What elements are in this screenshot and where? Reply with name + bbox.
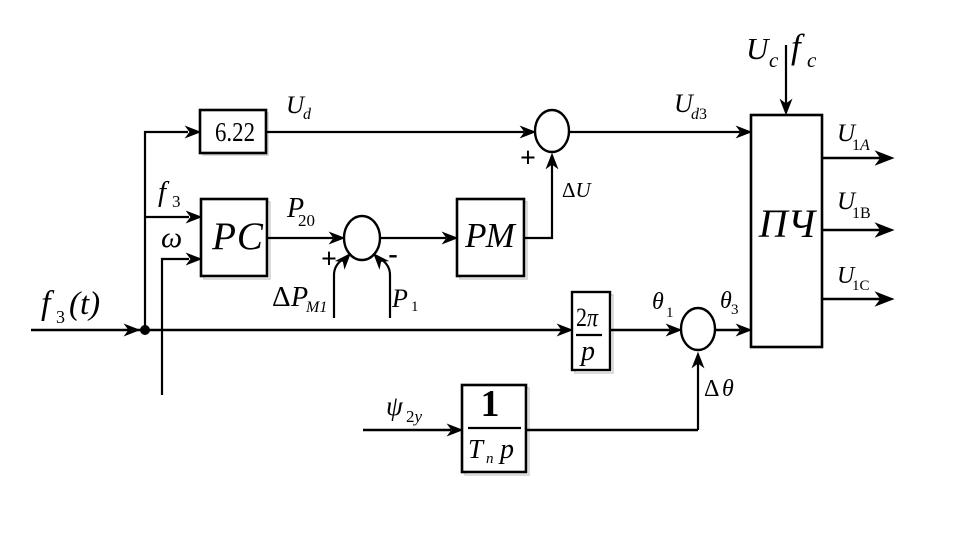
svg-text:РС: РС xyxy=(211,215,264,258)
wire: S1 output into PM xyxy=(380,233,457,244)
label f3 xyxy=(158,176,181,211)
svg-text:(t): (t) xyxy=(69,286,100,322)
wire: PM output up to S2 (delta U) xyxy=(524,154,557,238)
svg-text:6.22: 6.22 xyxy=(215,117,255,147)
arrowhead into node xyxy=(125,325,139,336)
label omega xyxy=(161,221,182,254)
wire: Uc fc arrow down into PCH xyxy=(781,45,792,114)
label theta3 xyxy=(720,288,739,318)
svg-text:f: f xyxy=(791,27,805,66)
label U1C xyxy=(837,263,870,294)
arrowhead into 2pi/p xyxy=(558,325,572,336)
wire: 1/Tnp output right and up (joins delta theta) xyxy=(526,429,698,431)
svg-text:U: U xyxy=(746,31,771,66)
wire: omega line vertical dangling xyxy=(161,258,163,395)
label P20 xyxy=(286,193,315,230)
svg-text:M1: M1 xyxy=(305,299,327,316)
wire: 6.22 output to sum2 xyxy=(266,127,535,138)
svg-text:3: 3 xyxy=(731,302,739,318)
summing junction S1 xyxy=(344,216,380,260)
wire: output U1C xyxy=(822,293,893,306)
label theta1 xyxy=(652,289,674,321)
svg-text:T: T xyxy=(468,434,485,464)
svg-text:1: 1 xyxy=(411,299,419,315)
svg-text:p: p xyxy=(498,434,514,465)
label plus S1 xyxy=(321,244,337,275)
wire: omega into PC block xyxy=(161,254,201,265)
wire: psi input into 1/Tnp xyxy=(363,425,462,436)
wire: branch into 6.22 block xyxy=(144,127,200,138)
block PC xyxy=(201,199,267,276)
wire: branch f3 into PC block xyxy=(144,212,201,223)
wire: output U1A xyxy=(822,152,893,165)
wire: 2pi/p output into S3 xyxy=(610,325,681,336)
label minus S1 xyxy=(388,239,397,270)
block 2pi/p xyxy=(572,292,610,370)
svg-text:2y: 2y xyxy=(406,407,423,426)
wire: vertical branch from node up xyxy=(144,131,146,330)
svg-text:3: 3 xyxy=(56,307,65,327)
label Uc xyxy=(746,31,779,72)
label P1 xyxy=(391,284,419,315)
svg-text:f: f xyxy=(158,176,170,208)
svg-text:-: - xyxy=(388,239,397,270)
svg-text:c: c xyxy=(769,48,779,72)
svg-text:P: P xyxy=(391,284,408,313)
summing junction S2 xyxy=(535,110,569,152)
label Ud3 xyxy=(674,89,707,123)
label psi2y xyxy=(386,391,423,426)
svg-text:Δ: Δ xyxy=(704,376,719,402)
block PM xyxy=(457,199,524,276)
svg-text:2π: 2π xyxy=(576,303,599,332)
label fc xyxy=(791,27,817,72)
block 1/Tnp xyxy=(462,383,526,472)
svg-text:ψ: ψ xyxy=(386,391,404,421)
block 6.22 shadow xyxy=(203,113,268,155)
svg-text:ΔU: ΔU xyxy=(562,178,593,202)
svg-text:p: p xyxy=(579,336,595,367)
svg-text:1C: 1C xyxy=(852,278,870,294)
svg-text:d3: d3 xyxy=(691,106,707,123)
block 2pi/p shadow xyxy=(575,295,613,373)
wire: P1 hook into S1 xyxy=(370,250,390,318)
wire: dPM1 hook into S1 xyxy=(334,250,354,318)
svg-text:+: + xyxy=(520,143,536,174)
svg-text:1B: 1B xyxy=(852,205,871,222)
svg-text:ПЧ: ПЧ xyxy=(758,201,818,246)
svg-text:ω: ω xyxy=(161,221,182,254)
svg-text:1: 1 xyxy=(666,305,674,321)
label dPM1 xyxy=(272,281,327,316)
wire: S2 output to PCH xyxy=(569,127,751,138)
svg-text:3: 3 xyxy=(172,192,181,211)
svg-text:n: n xyxy=(486,451,494,467)
block PCH xyxy=(751,115,822,347)
svg-text:θ: θ xyxy=(652,289,664,315)
node: junction dot xyxy=(140,325,150,335)
summing junction S3 xyxy=(681,308,715,350)
svg-text:1A: 1A xyxy=(852,137,870,154)
svg-text:θ: θ xyxy=(722,376,734,402)
svg-text:Δ: Δ xyxy=(272,281,291,313)
label delta U xyxy=(562,178,593,202)
label f3(t) input xyxy=(41,285,100,327)
svg-text:d: d xyxy=(303,106,312,123)
svg-text:1: 1 xyxy=(481,383,500,425)
block PC shadow xyxy=(204,202,270,279)
block 6.22 xyxy=(200,110,266,153)
svg-text:c: c xyxy=(807,48,817,72)
label plus S2 xyxy=(520,143,536,174)
wire: output U1B xyxy=(822,224,893,237)
svg-text:f: f xyxy=(41,285,55,322)
wire: delta theta up into S3 xyxy=(693,353,704,430)
svg-text:20: 20 xyxy=(298,211,315,230)
block 1/Tnp shadow xyxy=(465,388,529,475)
block PM shadow xyxy=(460,202,527,279)
label delta theta xyxy=(704,376,734,402)
label Ud xyxy=(286,92,312,123)
wire: main input f3(t) horizontal xyxy=(31,329,143,331)
wire: PC output to sum1 xyxy=(267,233,344,244)
wire: main line from node to 2pi/p block xyxy=(145,329,562,331)
label U1B xyxy=(837,188,871,222)
label U1A xyxy=(837,120,870,154)
wire: S3 output into PCH xyxy=(715,325,751,336)
svg-text:РМ: РМ xyxy=(464,216,517,255)
